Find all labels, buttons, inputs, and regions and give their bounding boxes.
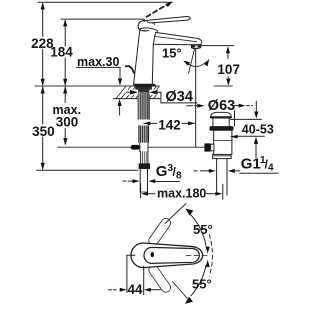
wire reference line B (184 top) (61, 18, 145, 20)
svg-text:Ø34: Ø34 (166, 89, 193, 105)
counter top line right extension (214, 85, 232, 87)
svg-text:300: 300 (56, 114, 79, 129)
flange (209, 126, 233, 131)
label Ø34 with arrows (126, 89, 197, 105)
body cylinder (213, 131, 215, 155)
pivot dashed arc (138, 21, 145, 31)
svg-text:55°: 55° (193, 222, 213, 237)
faucet lower tube hatched (141, 151, 148, 163)
G3/8 nut (139, 163, 150, 169)
svg-text:Ø63: Ø63 (208, 98, 235, 114)
svg-text:G1: G1 (241, 156, 261, 173)
svg-text:G: G (156, 163, 168, 180)
faucet body outline (134, 28, 158, 84)
spout (153, 32, 201, 45)
dashed raised handle line (147, 3, 170, 16)
label G3/8 with arrows (123, 163, 182, 183)
rod crossing collar at shank (140, 143, 149, 151)
dimension 184 (50, 19, 73, 86)
svg-text:44: 44 (127, 282, 143, 297)
pop-up rod (horizontal) (58, 146, 205, 148)
aerator (191, 45, 201, 49)
neck (212, 119, 214, 126)
pop-up waste body (204, 112, 233, 195)
spout swing arc with arrows (183, 59, 209, 67)
svg-text:4: 4 (268, 163, 274, 174)
dimension max.300 (53, 86, 82, 145)
base escutcheon (133, 84, 155, 86)
svg-text:55°: 55° (192, 277, 212, 292)
side port (204, 143, 210, 151)
svg-text:max.30: max.30 (77, 55, 119, 69)
dimension 142 (143, 117, 195, 132)
dashed swing arc at tip (209, 235, 212, 277)
counter hatching right (150, 86, 160, 99)
dimension 350 (32, 86, 55, 170)
line at hose ends (350 bottom ref) (37, 169, 138, 171)
small mark on lever (152, 23, 154, 25)
label Ø63 with leader (187, 98, 259, 126)
svg-text:max.180: max.180 (157, 186, 206, 200)
dimension 228 (31, 2, 54, 85)
lower blade axis extension line (173, 282, 191, 303)
spout inner line (155, 36, 197, 41)
wire spout tip vertical reference (195, 46, 197, 147)
hook detail left of body (126, 66, 134, 73)
spout tilt line 15deg (189, 47, 195, 73)
lower collar (213, 154, 232, 158)
arc 55 lower (191, 265, 206, 296)
faucet body (side view) (126, 2, 202, 87)
lever handle blade (147, 17, 190, 23)
plug dome (210, 112, 231, 117)
rod ball joint at shank (131, 145, 140, 150)
arc 55 upper (191, 215, 206, 246)
counter underside line left (114, 98, 139, 100)
dimension 107 (201, 46, 240, 86)
label max.30 with leader (77, 55, 123, 115)
tailpipe (216, 159, 218, 195)
svg-text:40-53: 40-53 (242, 123, 274, 137)
svg-text:142: 142 (158, 117, 181, 132)
counter hatching left (116, 86, 138, 99)
counter underside line right (150, 98, 161, 100)
rotated handle lower (55 down) (147, 263, 172, 294)
rotated handle upper (55 up) (147, 217, 172, 248)
dimension 44 (109, 255, 161, 297)
svg-text:107: 107 (217, 62, 240, 77)
label G1 1/4 with arrows (194, 155, 278, 174)
wire top reference line A (228 top) (38, 1, 173, 3)
handle knuckle (138, 20, 149, 31)
counter top line (35, 85, 159, 87)
G3/8 tailpiece (140, 169, 147, 192)
dimension max.180 (141, 183, 223, 200)
faucet mounting washer under counter (135, 86, 152, 92)
lever centerline dashes (186, 255, 210, 257)
dimension 40-53 (230, 119, 274, 157)
main lever plan view (131, 243, 203, 268)
svg-text:8: 8 (176, 171, 182, 182)
svg-text:350: 350 (32, 124, 55, 139)
upper blade axis extension line (165, 204, 186, 224)
svg-text:15°: 15° (162, 45, 182, 60)
faucet threaded shank (138, 92, 149, 143)
svg-text:184: 184 (50, 45, 73, 60)
